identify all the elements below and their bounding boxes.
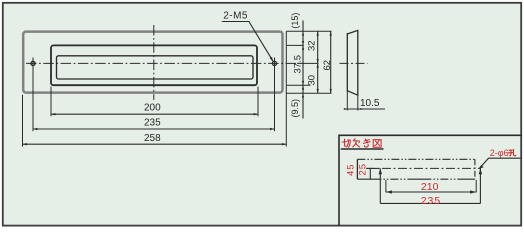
vertical dimension column 32/30 xyxy=(317,31,319,93)
svg-text:(15): (15) xyxy=(290,13,300,29)
section divider lines xyxy=(339,135,522,226)
vertical dimension column 15/37.5/9.5 xyxy=(302,21,304,119)
svg-text:2-φ6: 2-φ6 xyxy=(490,148,509,158)
leader arrowhead xyxy=(479,165,484,169)
vertical dimension column 62 xyxy=(330,31,332,93)
svg-text:62: 62 xyxy=(322,60,333,71)
svg-text:235: 235 xyxy=(144,118,161,129)
svg-text:25: 25 xyxy=(358,163,369,176)
cutout rectangle top edge (phantom line) xyxy=(357,158,475,160)
solid tick of center line at 25 dimension xyxy=(367,167,379,169)
dimension 200 line xyxy=(51,113,258,115)
kanji 切 xyxy=(342,139,350,147)
dimension 258 line xyxy=(23,143,287,145)
kana き xyxy=(363,139,370,147)
tick plate top xyxy=(286,30,331,32)
side view outline xyxy=(347,30,358,95)
dimension 210 line (cutout) xyxy=(386,191,476,193)
recess opening rectangle xyxy=(51,45,257,85)
title 切欠き図 (red) xyxy=(342,139,381,148)
svg-text:258: 258 xyxy=(144,133,161,144)
svg-text:32: 32 xyxy=(306,40,317,51)
hole left xyxy=(31,61,35,65)
kanji 孔 (red strokes) xyxy=(509,149,516,155)
dimension 25 line xyxy=(369,168,371,179)
cutout hole center line xyxy=(366,167,481,169)
right hole marker with up arrow xyxy=(479,168,481,203)
title underline (black) xyxy=(341,148,384,150)
svg-text:(9.5): (9.5) xyxy=(290,99,300,118)
vertical center line xyxy=(153,25,155,100)
dimension 235 line (cutout) xyxy=(380,202,480,204)
svg-text:210: 210 xyxy=(421,181,439,193)
tick plate bottom xyxy=(286,92,331,94)
dimension 258 extension lines xyxy=(22,95,24,147)
dimension 200 extension lines xyxy=(50,87,52,117)
dimension 210 extension lines xyxy=(385,180,387,192)
horizontal center line xyxy=(26,62,297,64)
svg-text:37.5: 37.5 xyxy=(292,55,303,74)
hole right xyxy=(272,61,276,65)
kanji 図 xyxy=(373,140,381,148)
cutout rectangle bottom edge (phantom line) xyxy=(357,178,475,180)
tick recess top xyxy=(287,44,304,46)
dimension 10.5 line xyxy=(345,108,385,110)
cutout rectangle right edge (phantom line) xyxy=(474,159,476,179)
inner lip rectangle xyxy=(57,56,254,79)
plate outline xyxy=(23,32,282,93)
center line tick to 32/30 dimension column xyxy=(297,62,319,64)
leader under 2-M5 xyxy=(222,22,273,62)
dimension 235 line xyxy=(33,128,275,130)
leader arrowhead at hole xyxy=(270,57,274,62)
left hole marker with up arrow xyxy=(379,168,381,203)
cutout rectangle left edge (solid) xyxy=(356,159,358,179)
dimension 235 extension lines xyxy=(32,58,34,132)
svg-text:2-M5: 2-M5 xyxy=(223,11,248,22)
svg-text:235: 235 xyxy=(421,195,442,207)
svg-text:30: 30 xyxy=(306,75,317,86)
dimension 10.5 extension lines xyxy=(346,91,348,111)
kanji 欠 xyxy=(353,139,360,147)
svg-text:200: 200 xyxy=(144,102,161,113)
tick recess bottom xyxy=(287,84,311,86)
leader for 2-φ6孔 xyxy=(480,158,521,168)
svg-text:45: 45 xyxy=(345,163,356,176)
svg-text:10.5: 10.5 xyxy=(360,98,380,109)
side view center line xyxy=(340,62,368,64)
